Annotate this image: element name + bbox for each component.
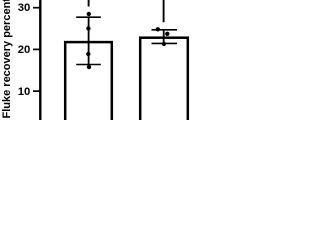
bar 1 data point 1 bbox=[87, 12, 91, 16]
bar 2 lower error cap bbox=[152, 42, 178, 44]
bar 2 (group 2 mean bar) bbox=[140, 38, 188, 128]
bar 1 error bar vertical line bbox=[88, 17, 90, 64]
significance bracket leg over bar 2 bbox=[163, 0, 165, 22]
bar 1 data point 2 bbox=[86, 26, 90, 30]
svg-text:30: 30 bbox=[18, 2, 31, 14]
y-axis line bbox=[39, 0, 41, 120]
bar 1 upper error cap bbox=[76, 16, 101, 18]
svg-text:10: 10 bbox=[18, 86, 31, 98]
tick mark 10 bbox=[33, 90, 40, 92]
bar 1 lower error cap bbox=[76, 64, 101, 66]
tick mark 20 bbox=[33, 48, 40, 50]
svg-text:Fluke recovery percent: Fluke recovery percent bbox=[1, 0, 13, 119]
bar 2 data point 2 bbox=[165, 32, 169, 36]
bar 2 upper error cap bbox=[152, 29, 178, 31]
tick mark 30 bbox=[33, 7, 40, 9]
bar 1 data point 4 bbox=[87, 65, 91, 69]
svg-text:20: 20 bbox=[18, 44, 31, 56]
bar 2 data point 3 bbox=[162, 42, 166, 46]
bar 1 (group 1 mean bar) bbox=[65, 42, 112, 127]
bar 1 data point 3 bbox=[86, 52, 90, 56]
significance bracket leg over bar 1 bbox=[88, 0, 90, 7]
bar 2 error bar vertical line bbox=[163, 30, 165, 44]
bar 2 data point 1 bbox=[156, 27, 160, 31]
